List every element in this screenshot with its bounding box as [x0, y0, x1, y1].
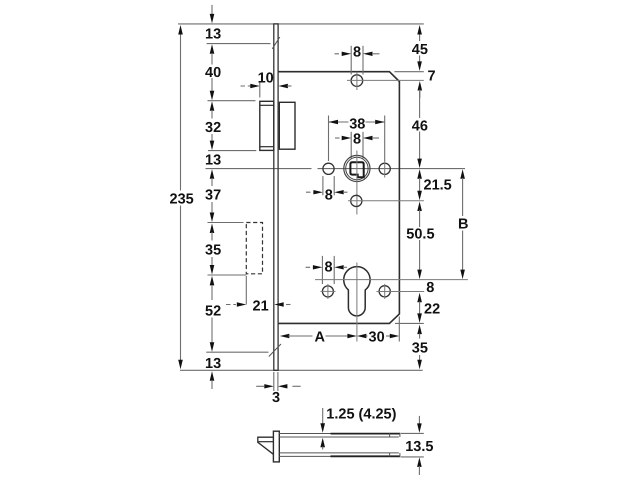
dimension 1.25 — [322, 408, 324, 425]
extension line case top right — [394, 71, 423, 73]
extension line 52/13 boundary — [206, 351, 268, 353]
svg-text:37: 37 — [205, 188, 221, 204]
top hole — [351, 75, 363, 87]
extension line 32/13 boundary — [208, 150, 256, 152]
dimension B — [460, 169, 465, 179]
cylinder vertical center line — [356, 263, 358, 342]
extension line 35/52 boundary — [208, 274, 247, 276]
extension line 13/40 boundary — [207, 43, 271, 45]
svg-text:21: 21 — [253, 299, 269, 315]
svg-text:52: 52 — [205, 304, 221, 320]
svg-text:B: B — [458, 217, 468, 233]
spindle vertical center line — [356, 151, 358, 215]
right hole vertical center line — [384, 161, 386, 178]
side view top wall — [279, 433, 400, 435]
latch head inner lines — [260, 104, 274, 106]
svg-text:8: 8 — [426, 280, 434, 296]
svg-text:10: 10 — [258, 71, 274, 87]
left hole — [323, 163, 334, 174]
top hole center lines — [347, 79, 424, 81]
dimension 8 right — [417, 293, 422, 303]
bottom hole center line — [348, 200, 424, 202]
svg-text:45: 45 — [412, 42, 428, 58]
svg-text:13: 13 — [205, 153, 221, 169]
svg-text:A: A — [315, 329, 326, 345]
dimension 21 — [226, 304, 236, 306]
dimension 46 — [419, 90, 421, 118]
svg-text:13.5: 13.5 — [405, 439, 433, 455]
latch head box — [260, 101, 274, 150]
dimension 35 left — [210, 224, 215, 234]
dimension 38 — [328, 116, 330, 162]
right hole — [379, 163, 390, 174]
svg-text:7: 7 — [428, 69, 436, 85]
svg-text:46: 46 — [412, 119, 428, 135]
faceplate break slash bottom — [269, 344, 281, 357]
lock case outline — [278, 72, 399, 324]
dimension A and 30 — [280, 334, 290, 338]
dimension 45 — [419, 33, 421, 41]
svg-text:21.5: 21.5 — [424, 178, 452, 194]
cylinder right hole — [379, 286, 390, 297]
spindle outer circle — [344, 155, 370, 181]
dimension 8 cylinder side — [321, 256, 323, 284]
dimension 13.5 — [401, 432, 424, 434]
dimension 37 — [211, 178, 213, 186]
spindle square hole — [350, 162, 363, 177]
dimension 10 — [241, 85, 252, 87]
svg-text:13: 13 — [205, 356, 221, 372]
bottom extension line — [180, 369, 423, 371]
svg-text:8: 8 — [353, 131, 361, 147]
dimension 22 — [419, 302, 421, 315]
dimension 13 second — [210, 169, 215, 179]
svg-text:3: 3 — [272, 390, 280, 406]
svg-text:30: 30 — [369, 329, 385, 345]
spindle inner circle — [346, 157, 368, 179]
side view faceplate bar — [273, 431, 279, 462]
extension line 40/32 boundary — [208, 100, 256, 102]
svg-text:40: 40 — [205, 65, 221, 81]
extension line case bottom right — [395, 322, 424, 324]
svg-text:22: 22 — [424, 302, 440, 318]
dimension 21.5 — [417, 169, 422, 179]
extension line 37/35 boundary — [208, 222, 244, 224]
faceplate break slash top — [272, 37, 280, 49]
svg-text:8: 8 — [353, 45, 361, 61]
bottom hole below spindle — [351, 195, 362, 206]
dimension 3 — [273, 372, 275, 391]
dimension 13 bottom — [210, 371, 215, 381]
svg-text:35: 35 — [205, 243, 221, 259]
side view bottom wall — [279, 452, 399, 454]
dimension 32 — [210, 101, 215, 111]
svg-text:8: 8 — [325, 259, 333, 275]
dimension 8 spindle — [350, 132, 352, 159]
center line hole row — [206, 168, 312, 170]
svg-text:235: 235 — [170, 192, 194, 208]
cylinder horizontal center line — [315, 279, 468, 281]
svg-text:1.25 (4.25): 1.25 (4.25) — [326, 406, 396, 422]
dimension 52 — [210, 276, 215, 286]
dimension 50.5 — [417, 202, 422, 212]
dimension 13 top arrows — [211, 5, 213, 15]
dimension 8 top hole — [350, 46, 352, 75]
dimension 35 right — [417, 325, 422, 335]
svg-text:8: 8 — [325, 188, 333, 204]
svg-text:50.5: 50.5 — [406, 227, 434, 243]
cylinder left hole — [322, 286, 333, 297]
latch follower box — [279, 102, 295, 149]
dimension 235 line — [180, 33, 182, 191]
svg-text:38: 38 — [349, 116, 365, 132]
dimension 7 — [418, 81, 423, 91]
svg-text:32: 32 — [205, 120, 221, 136]
side view latch bolt — [258, 437, 274, 454]
top extension line — [178, 23, 424, 25]
cylinder profile hole — [344, 267, 370, 316]
dimension 40 — [211, 78, 213, 93]
svg-text:13: 13 — [205, 27, 221, 43]
dimension 8 left hole — [322, 176, 324, 195]
svg-text:35: 35 — [412, 341, 428, 357]
faceplate — [274, 24, 278, 370]
deadbolt dashed box — [246, 223, 262, 274]
